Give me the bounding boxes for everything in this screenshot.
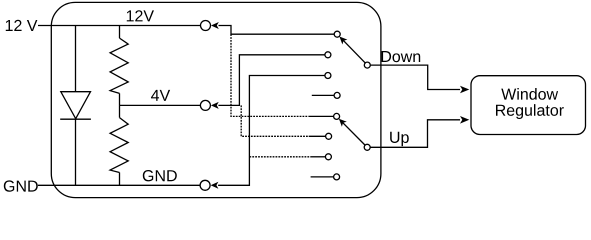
Up switch common circle	[364, 144, 370, 150]
wire 12V feed to Down contact 1	[219, 26, 335, 35]
wire GND rail	[38, 184, 200, 186]
label Down	[382, 51, 421, 62]
Up switch contact 2 stub	[309, 135, 326, 137]
label 12 V (external supply)	[6, 20, 38, 31]
Up switch contact 3 stub	[311, 156, 325, 158]
label Up	[390, 132, 409, 146]
wire dotted 4V to Up contact 2	[241, 105, 309, 136]
wire dotted 12V to Up contact 1	[231, 34, 309, 116]
wire GND feed to Down contact 3	[218, 76, 325, 186]
resistor R1 zigzag	[110, 38, 128, 93]
resistor R1 top lead	[119, 26, 121, 39]
wire dotted GND to Up contact 3	[249, 156, 311, 158]
arrowhead into GND node	[211, 182, 219, 189]
Down switch contact 4 stub (n.c.)	[312, 94, 334, 96]
Up switch blade	[341, 121, 365, 145]
Down switch contact 2 (4V)	[325, 52, 331, 58]
Up switch contact 1 stub (12V dotted feed)	[309, 115, 334, 117]
Up switch contact 3 circle	[325, 154, 331, 160]
resistor R2 zigzag	[110, 118, 128, 173]
diode D1 cathode bar	[60, 118, 91, 120]
wire Down output	[370, 65, 460, 89]
label GND (external)	[4, 180, 38, 191]
node 4V terminal circle	[200, 100, 210, 110]
Down switch blade arrowhead	[339, 37, 347, 45]
wire 12V rail	[38, 25, 200, 27]
arrowhead Up into regulator	[460, 116, 469, 124]
switch module enclosure (rounded box)	[51, 2, 381, 197]
Up switch contact 1 circle	[334, 113, 340, 119]
wire 4V feed to Down contact 2	[218, 55, 325, 106]
Down switch contact 1 (12V)	[334, 31, 340, 37]
Down switch contact 3 (GND)	[325, 73, 331, 79]
label Regulator	[496, 104, 564, 119]
resistor R2 bottom lead	[119, 173, 121, 186]
label net 12V	[127, 10, 154, 21]
Window Regulator box	[471, 76, 586, 135]
Up switch blade arrowhead	[339, 119, 347, 127]
diode D1 anode lead	[75, 26, 77, 92]
arrowhead into 4V node	[211, 102, 219, 109]
arrowhead Down into regulator	[460, 86, 469, 94]
node 12V terminal circle	[201, 21, 211, 31]
Up switch contact 4 circle	[334, 174, 340, 180]
Up switch contact 4 stub (n.c.)	[311, 176, 334, 178]
diode D1 triangle	[61, 92, 91, 119]
Up switch contact 2 circle	[326, 133, 332, 139]
wire Up output	[370, 120, 460, 148]
diode D1 cathode lead	[75, 119, 77, 185]
wire 4V rail	[120, 104, 201, 106]
Down switch contact 4 circle	[334, 92, 340, 98]
label Window	[501, 88, 558, 100]
resistor R1 bottom lead	[119, 93, 121, 105]
resistor R2 top lead	[119, 105, 121, 117]
node GND terminal circle	[200, 180, 210, 190]
label net GND (internal)	[143, 170, 177, 181]
arrowhead into 12V node	[211, 22, 219, 29]
label net 4V	[151, 90, 170, 101]
Down switch common circle	[364, 62, 370, 68]
Down switch blade	[342, 39, 366, 63]
